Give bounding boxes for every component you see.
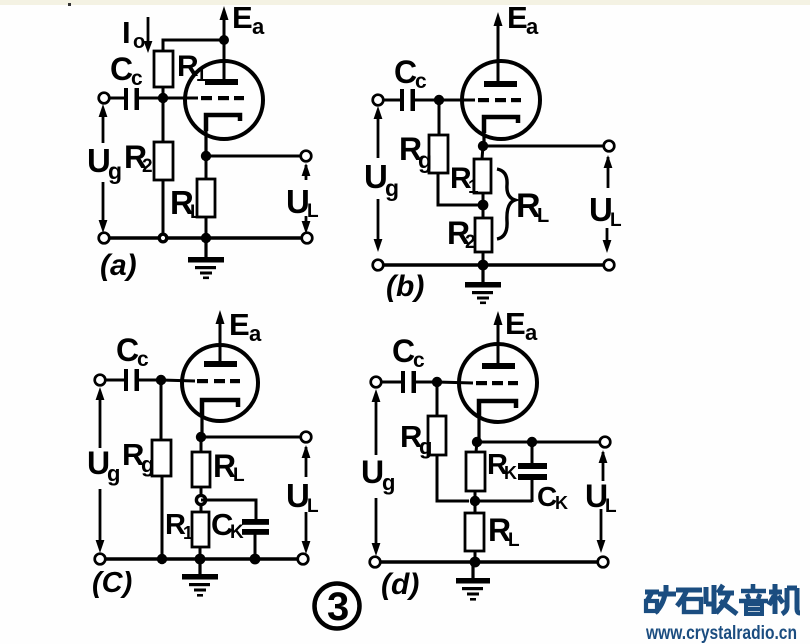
label Cc (c)	[116, 332, 149, 371]
terminal: output bottom (a)	[302, 233, 313, 244]
wire: RK top lead (d)	[476, 442, 477, 452]
label R1 (a)	[177, 50, 207, 86]
wire: grid lead (c)	[161, 380, 195, 381]
label Ea (a)	[232, 0, 265, 39]
wire: cathode lead (c)	[200, 400, 203, 437]
tube V3 plate (c)	[204, 361, 237, 367]
watermark logo 石	[676, 590, 702, 612]
wire: grid node to R2 (a)	[162, 98, 165, 142]
terminal: output top (b)	[604, 141, 615, 152]
wire: cathode lead (a)	[204, 115, 207, 156]
wire: cathode to output terminal (b)	[483, 145, 604, 148]
svg-text:g: g	[385, 175, 399, 201]
label UL (d)	[585, 478, 617, 517]
svg-text:c: c	[415, 70, 427, 93]
resistor Rg (d)	[428, 416, 446, 455]
label Ck (c)	[211, 507, 244, 543]
node: R2 rail junction (a)	[159, 234, 167, 242]
resistor Rg (c)	[152, 440, 171, 476]
tube V4 grid (d)	[476, 381, 518, 385]
voltage arrow Ug (d)	[372, 389, 381, 556]
wire: R1 to R2 (b)	[482, 193, 485, 218]
ground (d)	[456, 562, 490, 601]
wire: Rg bottom to rail (c)	[161, 476, 164, 559]
wire: RK bottom to RL top (d)	[474, 491, 477, 513]
ground (a)	[188, 238, 224, 279]
svg-text:3: 3	[327, 585, 349, 629]
svg-text:o: o	[133, 31, 145, 53]
wire: Ea junction to R1 top (a)	[163, 40, 224, 51]
svg-text:L: L	[605, 496, 617, 517]
terminal: input top (b)	[373, 95, 384, 106]
svg-text:c: c	[413, 349, 425, 372]
wire: R2 bottom to rail (a)	[162, 180, 165, 238]
svg-text:g: g	[107, 461, 120, 486]
svg-text:L: L	[508, 530, 520, 551]
watermark logo 收	[706, 585, 737, 614]
node: Rg rail junction (c)	[157, 554, 167, 564]
node: Ck top junction (d)	[527, 437, 537, 447]
wire: grid node to Rg (d)	[436, 382, 439, 416]
label Ea (c)	[229, 307, 262, 346]
svg-text:2: 2	[142, 156, 153, 177]
tube V2 envelope (b)	[462, 61, 540, 139]
label Rg (c)	[122, 437, 154, 477]
wire: grid lead (d)	[437, 382, 473, 383]
tube V2 grid (b)	[478, 98, 521, 102]
node: cathode junction (a)	[201, 151, 211, 161]
svg-text:E: E	[505, 306, 526, 341]
tube V1 grid (a)	[201, 96, 244, 100]
wire: capacitor to grid node (d)	[416, 381, 437, 384]
tube V1 envelope (a)	[185, 61, 263, 139]
wire: Rg bottom to tap node (d)	[437, 455, 469, 501]
ground (c)	[182, 559, 218, 597]
wire: RL leads (a)	[205, 156, 208, 238]
label RL (c)	[213, 448, 245, 486]
resistor R1 (c)	[192, 512, 209, 547]
voltage arrow Ug (a)	[99, 104, 108, 233]
brace RL (b)	[497, 169, 515, 239]
svg-text:E: E	[507, 0, 528, 35]
svg-text:C: C	[394, 54, 417, 90]
wire: bottom rail (b)	[378, 263, 609, 267]
wire: R2 bottom to rail (b)	[482, 252, 485, 265]
node: grid node (d)	[432, 377, 442, 387]
wire: CK bottom to tap node (d)	[478, 500, 532, 503]
tube V4 plate lead (d)	[497, 344, 500, 365]
node: R1 rail junction (c)	[195, 554, 206, 565]
svg-text:a: a	[252, 14, 265, 39]
node: grid node (a)	[158, 93, 168, 103]
terminal: input top (c)	[95, 375, 106, 386]
label RL (a)	[170, 184, 202, 223]
capacitor Ck plates (c)	[242, 519, 269, 535]
resistor RL (a)	[197, 179, 215, 217]
svg-text:C: C	[116, 332, 139, 368]
terminal: input bottom (b)	[373, 260, 384, 271]
svg-text:g: g	[419, 434, 432, 459]
node: cathode tap junction (c)	[196, 495, 205, 504]
figure number 3 circle	[315, 584, 360, 630]
svg-text:L: L	[190, 202, 202, 223]
wire: input to capacitor (d)	[381, 381, 402, 384]
label UL (a)	[286, 183, 319, 222]
power Ea arrow (a)	[220, 6, 229, 42]
node: R1/R2 junction (b)	[478, 200, 489, 211]
svg-text:(C): (C)	[92, 567, 132, 599]
tube V3 plate lead (c)	[219, 342, 222, 363]
svg-text:C: C	[110, 51, 133, 87]
tube V4 envelope (d)	[459, 344, 537, 422]
tube V1 plate lead (a)	[223, 40, 226, 80]
label UL (c)	[286, 477, 319, 517]
label Cc (b)	[394, 54, 427, 93]
wire: bottom rail (c)	[100, 557, 303, 561]
svg-text:K: K	[504, 463, 517, 483]
terminal: input bottom (c)	[95, 554, 106, 565]
svg-text:L: L	[610, 210, 622, 231]
wire: cathode lead (b)	[482, 117, 485, 146]
svg-text:www.crystalradio.cn: www.crystalradio.cn	[645, 623, 797, 644]
svg-text:(b): (b)	[386, 270, 424, 303]
watermark logo 音	[739, 584, 768, 614]
label Ug (a)	[87, 142, 122, 184]
speck	[68, 3, 71, 6]
wire: RL bottom to rail (d)	[474, 551, 477, 562]
terminal: output top (a)	[301, 151, 312, 162]
label Ug (d)	[361, 454, 395, 495]
wire: capacitor to grid node (a)	[139, 97, 163, 100]
capacitor Cc (a)	[124, 88, 139, 110]
tube V4 cathode (d)	[479, 401, 516, 417]
wire: grid node to Rg (c)	[160, 380, 163, 440]
resistor R1 (a)	[154, 51, 173, 87]
label RL (b)	[516, 187, 549, 227]
svg-text:L: L	[537, 205, 549, 227]
tube V3 envelope (c)	[182, 345, 258, 421]
svg-text:1: 1	[183, 523, 193, 543]
wire: grid lead (b)	[439, 99, 475, 102]
label R2 (a)	[124, 139, 153, 177]
terminal: output bottom (d)	[598, 557, 609, 568]
wire: capacitor to grid node (b)	[415, 99, 439, 102]
terminal: output bottom (c)	[298, 554, 309, 565]
voltage arrow UL (a)	[302, 163, 311, 234]
label R1 (b)	[450, 162, 479, 198]
wire: capacitor to grid node (c)	[139, 379, 161, 382]
svg-text:g: g	[108, 158, 122, 184]
svg-text:g: g	[141, 452, 154, 477]
label Ug (c)	[87, 445, 120, 486]
tube V2 plate (b)	[484, 81, 517, 87]
label Ea (b)	[507, 0, 539, 39]
wire: Ck bottom to rail (c)	[254, 534, 257, 559]
resistor Rg (b)	[429, 135, 448, 173]
wire: Rg bottom to R1/R2 node (b)	[438, 173, 483, 205]
voltage arrow UL (d)	[597, 450, 608, 553]
voltage arrow Ug (c)	[96, 387, 105, 553]
resistor RL (d)	[465, 513, 484, 551]
label RK (d)	[487, 449, 517, 483]
wire: grid lead (a)	[163, 97, 198, 100]
svg-text:L: L	[233, 465, 245, 486]
wire: cathode to output terminal (d)	[477, 441, 600, 444]
wire: RL bottom to R1 (c)	[200, 487, 203, 512]
tube V3 grid (c)	[197, 379, 240, 383]
label Ea (d)	[505, 306, 538, 345]
wire: input to capacitor (a)	[109, 97, 125, 100]
wire: cathode to output terminal (c)	[201, 436, 301, 439]
power Ea arrow (c)	[216, 310, 225, 346]
svg-text:a: a	[526, 14, 539, 39]
svg-text:C: C	[392, 333, 415, 369]
label RL (d)	[488, 512, 520, 551]
wire: RL top lead (c)	[200, 437, 203, 452]
wire: input to capacitor (b)	[383, 99, 401, 102]
label Cc (d)	[392, 333, 425, 372]
current arrow Io (a)	[144, 17, 153, 53]
label UL (b)	[589, 191, 622, 231]
capacitor Cc (d)	[401, 371, 416, 393]
node: grid node (b)	[434, 95, 444, 105]
svg-text:K: K	[230, 522, 244, 543]
voltage arrow UL (b)	[603, 155, 613, 253]
resistor RL (c)	[192, 452, 210, 487]
resistor R2 (b)	[475, 218, 492, 252]
wire: bottom rail (a)	[104, 236, 307, 240]
svg-text:2: 2	[465, 232, 476, 253]
svg-text:K: K	[555, 493, 568, 513]
tube V4 plate (d)	[482, 363, 515, 369]
tube V2 plate lead (b)	[497, 60, 500, 82]
svg-text:1: 1	[468, 177, 479, 198]
svg-text:I: I	[122, 15, 131, 50]
node: cathode junction (d)	[472, 437, 482, 447]
ground (b)	[465, 265, 501, 304]
node: cathode junction (c)	[196, 432, 206, 442]
wire: R1 bottom to grid node (a)	[162, 87, 165, 98]
wire: R1 bottom to rail (c)	[199, 547, 202, 559]
label R1 (c)	[165, 509, 193, 543]
node: cathode tap junction (d)	[470, 496, 480, 506]
svg-text:a: a	[525, 320, 538, 345]
node: Ea junction (a)	[219, 35, 229, 45]
label Io (a)	[122, 15, 145, 53]
power Ea arrow (b)	[494, 12, 503, 64]
terminal: input bottom (d)	[370, 557, 381, 568]
power Ea arrow (d)	[494, 311, 503, 348]
label Cc (a)	[110, 51, 143, 90]
svg-text:L: L	[307, 201, 319, 222]
wire: cathode to output terminal (a)	[206, 155, 301, 158]
node: grid node (c)	[156, 375, 166, 385]
terminal: input top (a)	[99, 93, 110, 104]
label Ug (b)	[364, 158, 399, 201]
resistor R1 (b)	[474, 159, 491, 193]
wire: grid node to Rg (b)	[438, 100, 441, 135]
svg-text:c: c	[137, 348, 149, 371]
voltage arrow Ug (b)	[374, 106, 383, 252]
svg-text:c: c	[131, 67, 143, 90]
wire: tap to Ck (c)	[201, 500, 256, 520]
wire: input to capacitor (c)	[105, 379, 125, 382]
svg-text:a: a	[249, 321, 262, 346]
watermark logo 矿	[645, 585, 676, 613]
svg-text:E: E	[232, 0, 253, 35]
top scan strip	[0, 0, 810, 5]
watermark logo 机	[769, 584, 800, 614]
wire: bottom rail (d)	[375, 560, 603, 564]
voltage arrow UL (c)	[302, 445, 311, 554]
terminal: output top (d)	[600, 437, 611, 448]
capacitor Cc (c)	[124, 369, 139, 391]
node: RL rail junction (d)	[470, 557, 481, 568]
terminal: input bottom (a)	[99, 233, 110, 244]
terminal: output top (c)	[301, 432, 312, 443]
label Rg (b)	[399, 131, 432, 173]
wire: cathode lead (d)	[477, 401, 480, 442]
svg-text:(d): (d)	[381, 568, 419, 601]
terminal: input top (d)	[371, 377, 382, 388]
resistor R2 (a)	[154, 142, 173, 180]
label Rg (d)	[400, 419, 432, 459]
resistor RK (d)	[466, 452, 485, 491]
tube V3 cathode (c)	[202, 400, 238, 416]
terminal: output bottom (b)	[604, 260, 615, 271]
node: Ck rail junction (c)	[250, 554, 261, 565]
svg-text:g: g	[382, 470, 395, 495]
tube V1 cathode (a)	[206, 115, 240, 131]
svg-text:U: U	[361, 454, 384, 490]
svg-text:E: E	[229, 307, 250, 342]
svg-text:(a): (a)	[100, 249, 137, 282]
node: cathode junction (b)	[478, 141, 488, 151]
label CK (d)	[537, 481, 568, 513]
svg-text:g: g	[418, 147, 432, 173]
capacitor CK (d)	[518, 442, 547, 502]
label R2 (b)	[447, 215, 476, 253]
node: R2 rail junction (b)	[478, 260, 489, 271]
node: RL rail junction (a)	[201, 233, 211, 243]
tube V2 cathode (b)	[484, 117, 518, 133]
tube V1 plate (a)	[205, 79, 238, 85]
svg-text:L: L	[307, 496, 319, 517]
wire: R1 top lead (b)	[482, 146, 483, 159]
capacitor Cc (b)	[400, 89, 415, 111]
